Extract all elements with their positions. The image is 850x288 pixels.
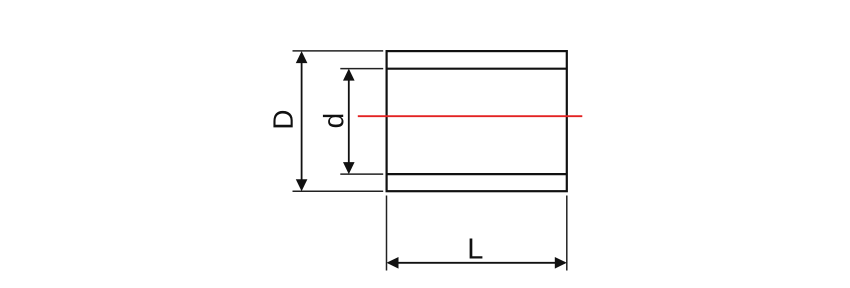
- dimension line D: [301, 53, 303, 189]
- arrowhead d up: [343, 69, 355, 81]
- arrowhead D up: [296, 51, 308, 63]
- arrowhead d down: [343, 162, 355, 174]
- dimension line L: [389, 262, 565, 264]
- extension line L left: [386, 196, 388, 271]
- bore line bottom: [387, 173, 567, 175]
- label d: [323, 115, 344, 128]
- extension line d top: [340, 68, 383, 70]
- extension line D bottom: [293, 190, 384, 192]
- label L: [470, 239, 483, 259]
- sleeve body outline: [387, 51, 567, 191]
- label D: [273, 111, 292, 128]
- extension line D top: [293, 50, 384, 52]
- arrowhead L right: [555, 257, 567, 269]
- arrowhead D down: [296, 179, 308, 191]
- centerline (red): [358, 115, 583, 117]
- dimension line d: [348, 71, 350, 173]
- extension line d bottom: [340, 173, 383, 175]
- arrowhead L left: [387, 257, 399, 269]
- bore line top: [387, 68, 567, 70]
- extension line L right: [566, 196, 568, 271]
